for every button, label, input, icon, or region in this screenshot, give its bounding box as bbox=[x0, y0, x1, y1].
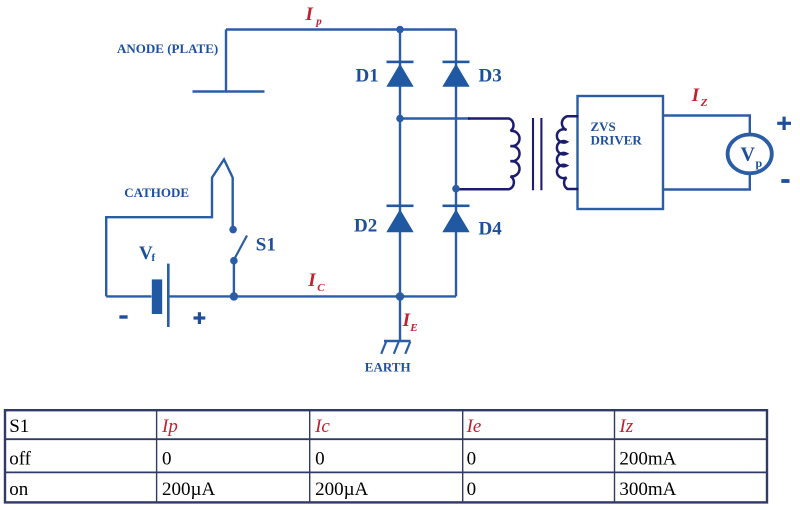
svg-text:I: I bbox=[307, 270, 316, 291]
svg-text:200µA: 200µA bbox=[162, 479, 215, 500]
svg-text:Ic: Ic bbox=[314, 416, 330, 437]
svg-text:0: 0 bbox=[315, 448, 325, 469]
svg-text:D2: D2 bbox=[354, 216, 377, 237]
svg-text:C: C bbox=[317, 282, 325, 294]
svg-text:I: I bbox=[691, 85, 700, 106]
svg-text:Z: Z bbox=[700, 97, 708, 109]
svg-text:Iz: Iz bbox=[618, 416, 633, 437]
svg-text:p: p bbox=[756, 156, 763, 170]
svg-text:CATHODE: CATHODE bbox=[124, 185, 189, 200]
svg-text:Ie: Ie bbox=[466, 416, 482, 437]
svg-text:on: on bbox=[9, 479, 29, 500]
svg-text:I: I bbox=[305, 4, 314, 25]
svg-text:f: f bbox=[152, 252, 156, 264]
svg-text:0: 0 bbox=[162, 448, 172, 469]
svg-text:200mA: 200mA bbox=[619, 448, 676, 469]
svg-text:S1: S1 bbox=[9, 416, 29, 437]
svg-text:Ip: Ip bbox=[161, 416, 178, 437]
svg-text:V: V bbox=[741, 143, 756, 165]
svg-text:off: off bbox=[9, 448, 31, 469]
svg-text:ANODE (PLATE): ANODE (PLATE) bbox=[117, 41, 218, 56]
svg-text:200µA: 200µA bbox=[315, 479, 368, 500]
svg-text:0: 0 bbox=[467, 479, 477, 500]
svg-text:D1: D1 bbox=[356, 66, 379, 87]
svg-text:DRIVER: DRIVER bbox=[591, 133, 643, 148]
svg-text:EARTH: EARTH bbox=[365, 360, 411, 375]
svg-text:S1: S1 bbox=[256, 235, 276, 256]
svg-text:D3: D3 bbox=[479, 66, 502, 87]
svg-text:ZVS: ZVS bbox=[591, 119, 616, 134]
svg-text:300mA: 300mA bbox=[619, 479, 676, 500]
svg-text:E: E bbox=[409, 322, 417, 334]
svg-text:p: p bbox=[315, 15, 322, 27]
svg-text:0: 0 bbox=[467, 448, 477, 469]
svg-text:D4: D4 bbox=[479, 219, 503, 240]
